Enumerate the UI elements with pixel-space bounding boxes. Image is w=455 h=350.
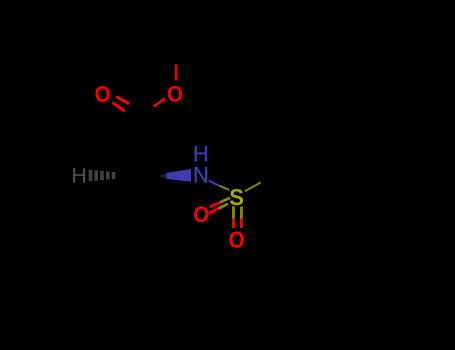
bond N-S olive half	[220, 186, 230, 190]
amide hydrogen H label (blue)	[195, 146, 207, 161]
bond N-S blue half	[209, 181, 220, 186]
carbonyl oxygen O1 label	[95, 86, 109, 102]
oxygen O3 label (left of S)	[194, 206, 208, 222]
wedge bond C* to N : dark (carbon) half	[159, 173, 167, 179]
bond O2 up to CH2 (red half)	[175, 64, 178, 80]
double bond C=O1 (red halves)	[112, 97, 129, 112]
bond O2 to carbonyl C (red half)	[154, 99, 165, 107]
double bond S=O3 (left), olive halves	[218, 198, 230, 209]
bond S to aryl C (olive half)	[245, 183, 261, 192]
hashed wedge bond C*-H (gray half)	[90, 170, 113, 181]
double bond S=O4 (below), olive halves	[234, 206, 242, 218]
nitrogen N label	[195, 167, 207, 183]
stereo hydrogen H label (gray)	[73, 168, 85, 183]
wedge bond C* to N : blue half	[167, 169, 192, 182]
ester oxygen O2 label	[168, 86, 182, 102]
oxygen O4 label (below S)	[229, 231, 243, 247]
sulfur S label	[230, 189, 243, 205]
double bond S=O4 (below), red halves	[234, 219, 242, 228]
double bond S=O3 (left), red halves	[209, 202, 220, 213]
